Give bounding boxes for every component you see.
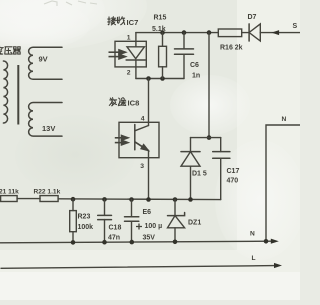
wire branch down <box>208 33 210 138</box>
capacitor C18 <box>104 199 106 242</box>
op-to IC7 box <box>115 41 146 67</box>
svg-text:E6: E6 <box>143 209 152 216</box>
svg-text:DZ1: DZ1 <box>188 220 201 227</box>
IC7 light arrows <box>109 50 126 59</box>
diode D15 <box>190 138 192 200</box>
svg-text:N: N <box>282 116 287 123</box>
electrolytic E6 <box>131 200 133 243</box>
svg-text:9V: 9V <box>39 55 48 64</box>
svg-text:1: 1 <box>127 34 131 41</box>
svg-text:C6: C6 <box>190 62 199 69</box>
svg-text:IC8: IC8 <box>128 99 140 108</box>
svg-text:R22 1.1k: R22 1.1k <box>34 188 61 195</box>
S line arrowhead <box>272 30 280 35</box>
node D15 <box>188 197 193 202</box>
svg-text:D1 5: D1 5 <box>192 171 207 178</box>
resistor R15 <box>162 33 164 79</box>
N arrowhead <box>271 239 279 244</box>
L wire with arrow <box>1 266 274 269</box>
pin 4 wire <box>148 79 150 126</box>
node at D15/C17 rail <box>207 135 212 140</box>
transformer secondary 13V winding <box>29 103 62 137</box>
svg-text:S: S <box>293 23 298 30</box>
node R23 bottom <box>71 240 76 245</box>
node C18 bottom <box>102 240 107 245</box>
svg-text:13V: 13V <box>42 124 55 133</box>
svg-text:100k: 100k <box>78 224 94 231</box>
svg-text:R23: R23 <box>78 214 91 221</box>
wire D15-C17 rail <box>191 137 221 139</box>
node DZ1 bottom <box>173 240 178 245</box>
lower rail N wire <box>0 241 272 243</box>
transformer core <box>17 65 19 125</box>
node R15 bottom <box>160 76 165 81</box>
svg-text:R15: R15 <box>154 15 167 22</box>
top rail wire <box>136 32 300 34</box>
resistor R21 <box>1 196 18 202</box>
pin 1 wire up to top rail <box>135 33 137 42</box>
IC7 photodiode <box>127 47 144 59</box>
E6 plus sign <box>136 224 142 230</box>
wire R21-R22 <box>17 198 40 200</box>
svg-text:R16 2k: R16 2k <box>220 45 243 52</box>
node IC8 pin4 <box>146 76 151 81</box>
diode D7 <box>248 24 250 41</box>
resistor R16 <box>218 29 241 37</box>
resistor R22 <box>40 196 58 202</box>
svg-text:3: 3 <box>140 163 144 170</box>
IC7 bottom wire <box>136 78 184 80</box>
rail wire <box>58 198 221 201</box>
svg-text:L: L <box>252 255 256 262</box>
node down-branch <box>207 30 212 35</box>
N feed wire <box>266 125 300 241</box>
node IC8 pin3 <box>146 197 151 202</box>
capacitor C17 <box>220 138 222 200</box>
IC8 phototransistor <box>134 125 136 150</box>
transformer label 变压器 <box>0 46 3 54</box>
label 发送IC8 <box>109 98 116 106</box>
svg-text:IC7: IC7 <box>127 18 139 27</box>
svg-text:5.1k: 5.1k <box>152 26 166 33</box>
node N branch <box>264 239 269 244</box>
transformer secondary 9V winding <box>29 47 62 79</box>
svg-text:1n: 1n <box>192 73 200 80</box>
IC8 light arrows <box>115 136 128 145</box>
svg-text:100 µ: 100 µ <box>145 223 163 230</box>
pin 2 wire down <box>135 67 137 79</box>
opto IC8 box <box>119 122 159 157</box>
svg-text:C17: C17 <box>227 168 240 175</box>
svg-text:D7: D7 <box>248 14 257 21</box>
node E6 bottom <box>130 240 135 245</box>
svg-text:21 11k: 21 11k <box>0 188 19 195</box>
svg-text:35V: 35V <box>143 235 156 242</box>
svg-text:C18: C18 <box>109 225 122 232</box>
zener DZ1 <box>174 200 176 243</box>
node R23 <box>71 197 76 202</box>
svg-text:47n: 47n <box>108 234 120 241</box>
capacitor C6 <box>183 33 185 79</box>
svg-text:4: 4 <box>141 115 145 122</box>
svg-text:N: N <box>250 231 255 238</box>
resistor R23 <box>72 199 74 242</box>
node DZ1 <box>173 197 178 202</box>
transformer primary winding <box>3 61 7 123</box>
svg-text:2: 2 <box>127 70 131 77</box>
node E6 <box>129 197 134 202</box>
svg-text:470: 470 <box>227 178 239 185</box>
node R15 top <box>160 30 165 35</box>
label 接收IC7 <box>108 17 116 25</box>
pin 3 wire down to rail <box>148 150 150 199</box>
faint cut-off print at top edge <box>44 1 97 6</box>
node C6 top <box>182 30 187 35</box>
node C18 <box>102 197 107 202</box>
